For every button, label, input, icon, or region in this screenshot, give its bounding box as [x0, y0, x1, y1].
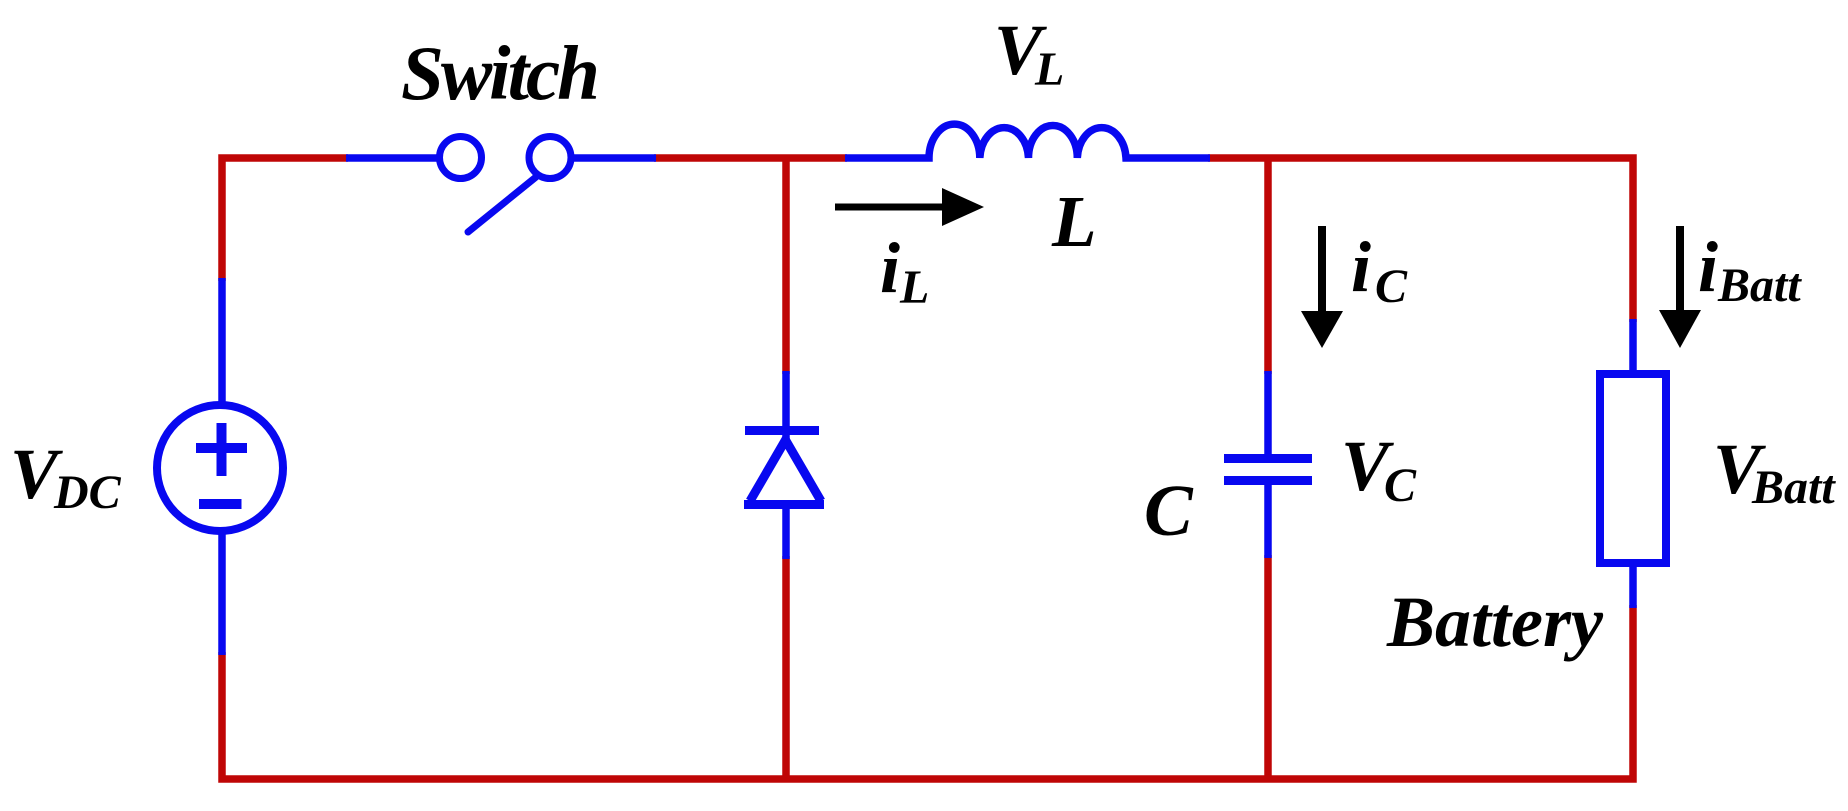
svg-text:Battery: Battery	[1386, 582, 1604, 662]
svg-text:i: i	[880, 228, 900, 308]
svg-text:C: C	[1375, 260, 1408, 313]
svg-text:L: L	[899, 261, 929, 314]
svg-text:i: i	[1698, 227, 1718, 307]
svg-text:Batt: Batt	[1751, 461, 1836, 514]
svg-text:C: C	[1144, 470, 1194, 551]
svg-text:DC: DC	[53, 466, 122, 519]
svg-text:L: L	[1051, 181, 1097, 262]
svg-text:i: i	[1351, 227, 1371, 307]
svg-text:Switch: Switch	[401, 30, 597, 116]
svg-text:C: C	[1384, 459, 1417, 512]
svg-text:L: L	[1034, 43, 1064, 96]
svg-text:Batt: Batt	[1717, 259, 1802, 312]
